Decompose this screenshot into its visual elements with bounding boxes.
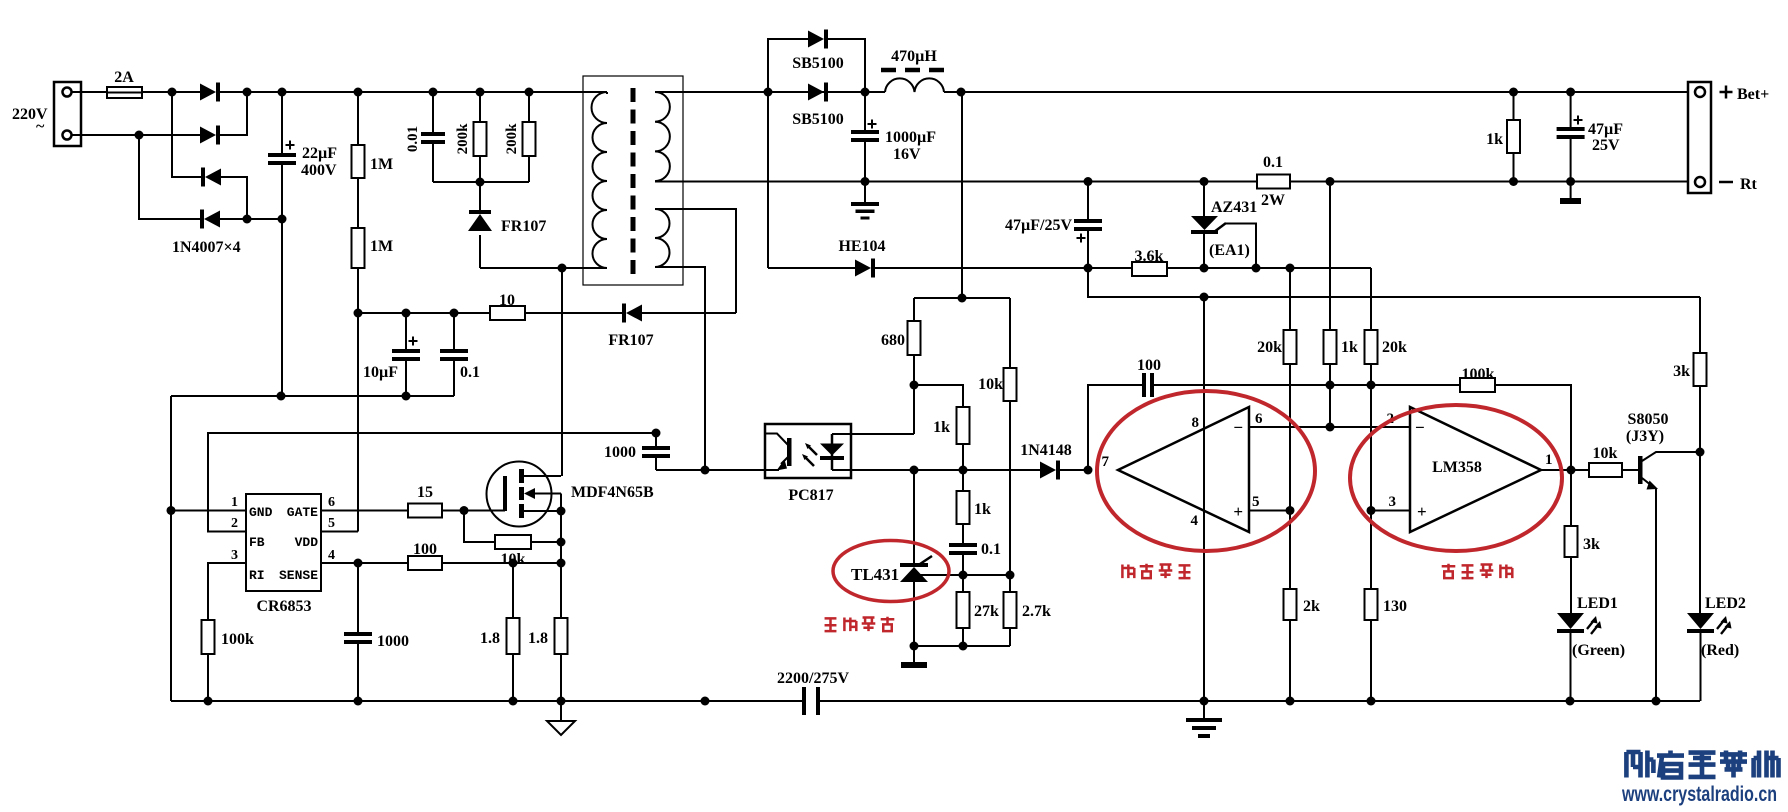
annotation ellipse lamp-control bbox=[1350, 405, 1562, 551]
annotation ellipse current-limit bbox=[1097, 391, 1315, 551]
transformer core bbox=[631, 88, 636, 276]
resistor R19 0.1 2W shunt bbox=[1257, 175, 1290, 189]
connector J1 220V input bbox=[54, 82, 81, 146]
label -Rt bbox=[1719, 181, 1733, 184]
svg-text:GATE: GATE bbox=[287, 505, 318, 520]
wire tl431 anode line bbox=[914, 645, 1010, 647]
svg-text:100: 100 bbox=[413, 541, 437, 558]
svg-text:6: 6 bbox=[1255, 411, 1263, 427]
svg-text:−: − bbox=[1233, 418, 1243, 437]
svg-text:5: 5 bbox=[328, 516, 335, 531]
ground primary bbox=[560, 701, 562, 721]
resistor R4 200k bbox=[528, 92, 530, 122]
resistor R24 100k bbox=[1460, 378, 1495, 392]
resistor R22 1k mid bbox=[1329, 182, 1331, 331]
wire pin2 FB loop bbox=[208, 433, 656, 532]
svg-text:1: 1 bbox=[1545, 452, 1553, 468]
diode D1 1N4007 bbox=[200, 84, 216, 101]
capacitor C11 47uF 25V out bbox=[1570, 92, 1572, 127]
svg-text:16V: 16V bbox=[893, 146, 921, 163]
svg-text:1000: 1000 bbox=[377, 633, 409, 650]
svg-text:47µF/25V: 47µF/25V bbox=[1005, 217, 1072, 234]
bottom rail secondary bbox=[820, 700, 1700, 702]
diode D7 SB5100 top bbox=[768, 39, 808, 92]
wire opamp supply verticals bbox=[1203, 297, 1205, 718]
svg-text:1000µF: 1000µF bbox=[885, 129, 936, 146]
svg-text:5: 5 bbox=[1252, 494, 1260, 510]
svg-text:680: 680 bbox=[881, 332, 905, 349]
svg-text:3: 3 bbox=[231, 548, 238, 563]
svg-text:2: 2 bbox=[231, 516, 238, 531]
svg-text:8: 8 bbox=[1192, 415, 1200, 431]
wire left gnd vertical bbox=[170, 396, 172, 701]
annotation ellipse tl431 bbox=[833, 541, 949, 602]
label +Bet+ bbox=[1720, 91, 1733, 94]
wire fuse to bridge bbox=[142, 91, 200, 93]
svg-text:15: 15 bbox=[417, 484, 433, 501]
svg-text:RI: RI bbox=[249, 568, 265, 583]
resistor R16 27k bbox=[962, 575, 964, 592]
shunt regulator U4 AZ431 bbox=[1203, 182, 1205, 217]
svg-text:100k: 100k bbox=[221, 631, 254, 648]
watermark logo kuangshi-shouyinji bbox=[1626, 751, 1653, 778]
svg-text:2A: 2A bbox=[114, 69, 134, 86]
transformer secondary winding bbox=[655, 92, 670, 181]
svg-text:Bet+: Bet+ bbox=[1737, 86, 1769, 103]
transistor Q1 MDF4N65B bbox=[487, 462, 552, 527]
wire pin3 bbox=[1371, 510, 1410, 512]
wire secondary top rail bbox=[655, 91, 885, 93]
svg-text:1k: 1k bbox=[1486, 131, 1503, 148]
svg-text:100: 100 bbox=[1137, 357, 1161, 374]
wire out+ rail bbox=[944, 91, 1688, 93]
svg-text:0.1: 0.1 bbox=[981, 541, 1001, 558]
svg-text:1M: 1M bbox=[370, 156, 393, 173]
svg-text:FB: FB bbox=[249, 535, 265, 550]
resistor R17 2.7k bbox=[1009, 575, 1011, 592]
svg-text:LED2: LED2 bbox=[1705, 595, 1746, 612]
wire 10ohm to FR107 bbox=[525, 312, 622, 314]
wire opamp2 output bbox=[1541, 469, 1589, 471]
annotation text zhuan-deng-kong-zhi bbox=[1442, 564, 1456, 578]
resistor R14 10k bbox=[1009, 298, 1011, 368]
svg-text:10k: 10k bbox=[1593, 445, 1618, 462]
svg-text:(Green): (Green) bbox=[1572, 642, 1625, 659]
svg-text:HE104: HE104 bbox=[838, 238, 885, 255]
resistor R18 3.6k bbox=[1132, 262, 1167, 276]
svg-text:470µH: 470µH bbox=[891, 48, 937, 65]
ground opamp bbox=[1186, 718, 1222, 722]
svg-text:20k: 20k bbox=[1382, 339, 1407, 356]
ground tl431 bbox=[913, 646, 915, 662]
svg-text:(J3Y): (J3Y) bbox=[1626, 428, 1664, 445]
transformer primary winding bbox=[592, 92, 607, 268]
wire +HV rail bbox=[282, 91, 607, 93]
wire pin6 to pin2 bbox=[1249, 426, 1410, 428]
resistor R1 1M bbox=[357, 92, 359, 145]
resistor R8 100 bbox=[408, 556, 442, 570]
transformer T1 body bbox=[583, 76, 683, 285]
svg-text:PC817: PC817 bbox=[788, 487, 833, 504]
svg-text:0.1: 0.1 bbox=[1263, 154, 1283, 171]
wire node AC1 down to D3 bbox=[172, 92, 201, 177]
svg-text:200k: 200k bbox=[455, 123, 471, 155]
resistor R12 680 bbox=[913, 298, 915, 321]
svg-text:7: 7 bbox=[1102, 454, 1110, 470]
wire aux top to FR107 bbox=[655, 209, 736, 313]
svg-text:2.7k: 2.7k bbox=[1022, 603, 1051, 620]
svg-text:47µF: 47µF bbox=[1588, 121, 1623, 138]
svg-text:400V: 400V bbox=[301, 162, 337, 179]
svg-text:22µF: 22µF bbox=[302, 145, 337, 162]
svg-text:MDF4N65B: MDF4N65B bbox=[571, 484, 654, 501]
svg-text:130: 130 bbox=[1383, 598, 1407, 615]
resistor R29 3k led1 bbox=[1570, 470, 1572, 526]
resistor R7 15 bbox=[408, 504, 442, 518]
diode D5 FR107 clamp bbox=[479, 182, 481, 214]
capacitor C3 10uF bbox=[405, 313, 407, 349]
ground output bbox=[1570, 182, 1572, 199]
svg-text:200k: 200k bbox=[504, 123, 520, 155]
svg-text:2k: 2k bbox=[1303, 598, 1320, 615]
svg-text:+: + bbox=[1233, 502, 1243, 521]
wire node AC2 down to D4 bbox=[139, 135, 200, 219]
annotation text xian-liu-kong-zhi bbox=[1122, 565, 1134, 579]
svg-text:FR107: FR107 bbox=[501, 218, 546, 235]
resistor R15 1k lower bbox=[962, 470, 964, 491]
LED LED2 red bbox=[1699, 452, 1701, 613]
resistor R9 10k gate bbox=[495, 535, 531, 549]
svg-text:(EA1): (EA1) bbox=[1209, 242, 1250, 259]
wire D3 anode to minus node bbox=[221, 177, 247, 219]
wire D1 cathode to +rail bbox=[220, 91, 282, 93]
fuse F1 2A bbox=[107, 87, 142, 98]
svg-text:SB5100: SB5100 bbox=[792, 111, 844, 128]
resistor R25 2k bbox=[1289, 511, 1291, 590]
wire clamp to drain node bbox=[480, 267, 607, 269]
svg-text:1N4148: 1N4148 bbox=[1020, 442, 1072, 459]
capacitor C1 22uF 400V bbox=[281, 92, 283, 153]
svg-text:6: 6 bbox=[328, 495, 335, 510]
wire fb cap bottom bbox=[656, 469, 779, 471]
wire vdd-gnd return bbox=[171, 395, 454, 397]
wire aux supply to opamp rail bbox=[1088, 268, 1700, 297]
svg-text:1.8: 1.8 bbox=[528, 630, 548, 647]
wire pin1 GND bbox=[171, 510, 246, 512]
resistor R21 20k bbox=[1289, 268, 1291, 330]
capacitor C7 1000 feedback bbox=[655, 433, 657, 446]
svg-text:SB5100: SB5100 bbox=[792, 55, 844, 72]
resistor R5 10 bbox=[358, 312, 490, 314]
capacitor C5 1000 bbox=[357, 563, 359, 632]
wire 10k down crossing bbox=[1009, 401, 1011, 575]
capacitor C8 0.1 bbox=[962, 524, 964, 543]
resistor R20 1k output bbox=[1513, 92, 1515, 120]
svg-text:3: 3 bbox=[1389, 494, 1397, 510]
svg-text:SENSE: SENSE bbox=[279, 568, 318, 583]
op-amp U5A LM358 current limit bbox=[1118, 407, 1249, 532]
wire pin5 bbox=[1249, 510, 1290, 512]
svg-text:www.crystalradio.cn: www.crystalradio.cn bbox=[1621, 783, 1777, 806]
resistor R6 100k bbox=[202, 620, 215, 654]
wire pin3 RI bbox=[208, 563, 246, 620]
svg-text:1.8: 1.8 bbox=[480, 630, 500, 647]
wire snubber bottom bbox=[433, 181, 529, 183]
wire 680 top link bbox=[914, 297, 1010, 299]
optocoupler U2 PC817 bbox=[765, 424, 851, 478]
op-amp U5B LM358 bbox=[1410, 407, 1541, 532]
svg-text:10k: 10k bbox=[978, 376, 1003, 393]
wire primary bottom bbox=[562, 267, 607, 269]
transistor Q2 S8050 bbox=[1638, 456, 1643, 484]
svg-text:GND: GND bbox=[249, 505, 273, 520]
svg-text:1k: 1k bbox=[1341, 339, 1358, 356]
capacitor C9 1000uF 16V bbox=[864, 92, 866, 130]
resistor R3 200k bbox=[479, 92, 481, 122]
svg-text:3.6k: 3.6k bbox=[1135, 248, 1164, 265]
svg-text:CR6853: CR6853 bbox=[256, 598, 311, 615]
annotation text wen-ya-kong-zhi bbox=[825, 618, 837, 631]
wire gnd rail right bbox=[1290, 181, 1688, 183]
svg-text:2200/275V: 2200/275V bbox=[777, 670, 849, 687]
svg-text:0.01: 0.01 bbox=[405, 126, 421, 152]
wire ref line bbox=[916, 574, 1010, 576]
main signal line y470 bbox=[851, 469, 1040, 471]
svg-text:10µF: 10µF bbox=[363, 364, 398, 381]
svg-text:20k: 20k bbox=[1257, 339, 1282, 356]
capacitor C4 0.1 bbox=[453, 313, 455, 349]
wire VDD node down to pin5 bbox=[357, 313, 359, 532]
svg-text:(Red): (Red) bbox=[1701, 642, 1739, 659]
wire pin5 VDD bbox=[321, 531, 358, 533]
wire aux bottom down bbox=[655, 267, 705, 470]
svg-text:0.1: 0.1 bbox=[460, 364, 480, 381]
diode D8 SB5100 bbox=[808, 84, 824, 101]
wire 680 to 1k bbox=[914, 385, 963, 407]
capacitor C10 47uF/25V bbox=[1087, 182, 1089, 220]
wire D2 cathode up to +rail bbox=[220, 92, 247, 135]
svg-text:4: 4 bbox=[1191, 513, 1199, 529]
wire connector to fuse bbox=[71, 91, 107, 93]
svg-text:100k: 100k bbox=[1462, 366, 1495, 383]
diode D3 1N4007 bbox=[201, 168, 205, 187]
resistor R11 1.8 bbox=[555, 618, 568, 654]
svg-text:TL431: TL431 bbox=[851, 565, 899, 584]
svg-text:1M: 1M bbox=[370, 238, 393, 255]
svg-text:+: + bbox=[1417, 502, 1427, 521]
connector J2 output bbox=[1688, 82, 1711, 193]
svg-text:1k: 1k bbox=[933, 419, 950, 436]
svg-text:FR107: FR107 bbox=[608, 332, 653, 349]
wire secondary gnd rail bbox=[655, 181, 1257, 183]
wire source chain bbox=[560, 511, 562, 618]
wire pin4 SENSE bbox=[321, 562, 408, 564]
svg-text:1N4007×4: 1N4007×4 bbox=[172, 239, 241, 256]
svg-text:LED1: LED1 bbox=[1577, 595, 1618, 612]
resistor R13 1k bbox=[957, 407, 970, 444]
svg-text:1k: 1k bbox=[974, 501, 991, 518]
resistor R23 20k right bbox=[1370, 268, 1372, 330]
svg-text:27k: 27k bbox=[974, 603, 999, 620]
svg-text:3k: 3k bbox=[1583, 536, 1600, 553]
wire D4 anode / minus line bbox=[220, 218, 282, 220]
resistor R26 130 bbox=[1370, 511, 1372, 590]
shunt regulator U3 TL431 bbox=[913, 470, 915, 563]
IC U1 CR6853 bbox=[246, 494, 321, 591]
svg-text:AZ431: AZ431 bbox=[1211, 199, 1257, 216]
capacitor C6 2200/275V bbox=[802, 687, 806, 715]
svg-text:1: 1 bbox=[231, 495, 238, 510]
wire gate junction down to 10k bbox=[464, 511, 495, 543]
resistor R27 10k base bbox=[1589, 463, 1622, 477]
LED LED1 green bbox=[1557, 613, 1584, 629]
svg-text:2W: 2W bbox=[1261, 192, 1285, 209]
svg-text:LM358: LM358 bbox=[1432, 459, 1482, 476]
diode D6 FR107 bbox=[622, 304, 626, 323]
wire 1M bottom to VDD node bbox=[357, 268, 359, 313]
wire drain vertical bbox=[561, 268, 563, 476]
wire minus node down bbox=[281, 219, 283, 396]
diode D4 1N4007 bbox=[200, 210, 204, 229]
resistor R2 1M bbox=[357, 178, 359, 228]
svg-text:4: 4 bbox=[328, 548, 335, 563]
ground secondary bbox=[864, 182, 866, 203]
svg-text:25V: 25V bbox=[1592, 137, 1620, 154]
wire connector low to D2 bbox=[71, 134, 200, 136]
wire pin6 GATE bbox=[321, 510, 408, 512]
svg-text:S8050: S8050 bbox=[1628, 411, 1669, 428]
svg-text:~: ~ bbox=[36, 118, 45, 135]
resistor R28 3k right bbox=[1699, 297, 1701, 353]
svg-text:3k: 3k bbox=[1673, 363, 1690, 380]
svg-text:VDD: VDD bbox=[295, 535, 319, 550]
capacitor C2 0.01 bbox=[432, 92, 434, 132]
resistor R10 1.8 bbox=[507, 618, 520, 654]
bottom rail primary bbox=[171, 700, 806, 702]
diode D9 HE104 bbox=[767, 92, 769, 268]
svg-text:1000: 1000 bbox=[604, 444, 636, 461]
svg-text:−: − bbox=[1415, 418, 1425, 437]
svg-text:Rt: Rt bbox=[1740, 176, 1758, 193]
svg-text:10: 10 bbox=[499, 292, 515, 309]
diode D2 1N4007 bbox=[200, 127, 216, 144]
transformer aux winding bbox=[655, 209, 670, 267]
wire opto anode up to 680 node bbox=[913, 385, 915, 434]
wire +out branch down bbox=[961, 92, 963, 298]
